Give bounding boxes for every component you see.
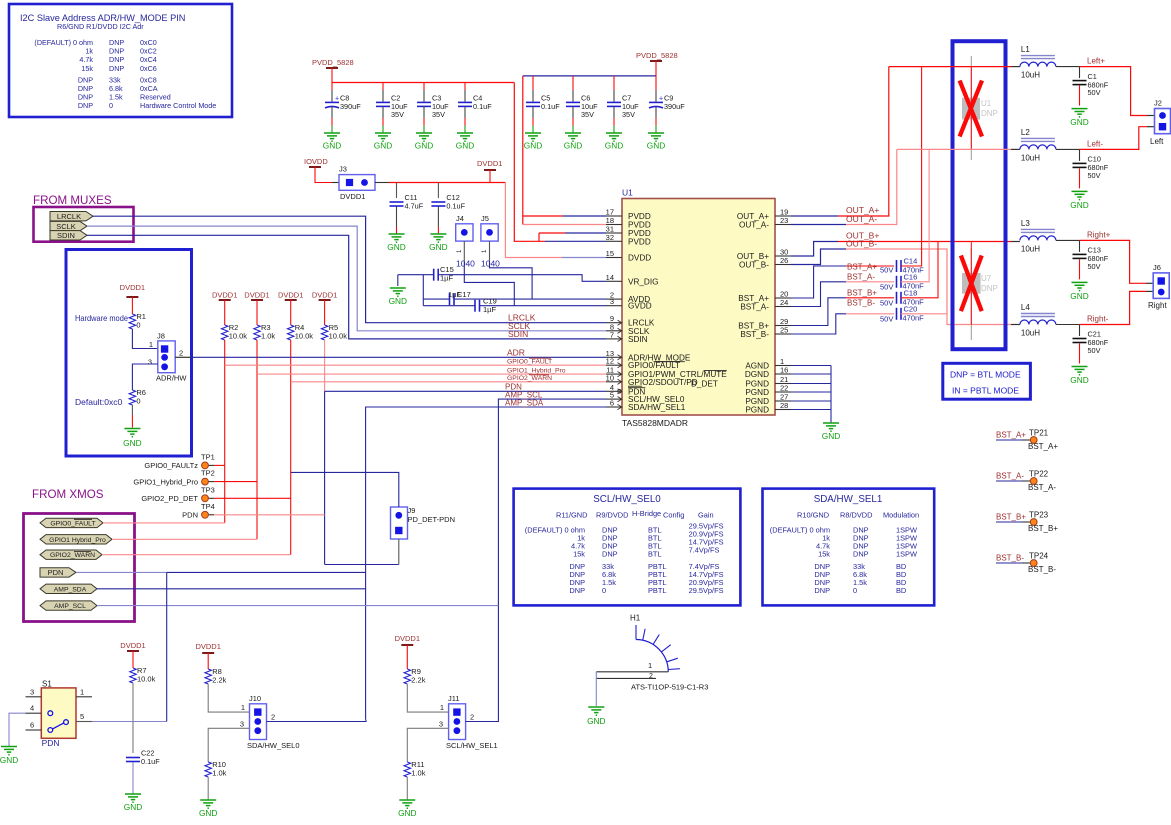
power flag DVDD1 R3 [244, 291, 269, 326]
svg-text:J4: J4 [456, 214, 464, 223]
tag AMP_SCL [40, 601, 97, 610]
pin 14 VR_DIG [606, 273, 659, 287]
svg-text:SCL/HW_SEL0: SCL/HW_SEL0 [593, 494, 661, 505]
resistor R3 [254, 323, 276, 341]
svg-text:10uH: 10uH [1021, 153, 1040, 162]
svg-text:GND: GND [429, 242, 447, 252]
svg-text:R11/GND: R11/GND [556, 511, 588, 520]
svg-text:U1: U1 [622, 188, 633, 198]
svg-text:3: 3 [148, 358, 152, 367]
svg-text:DVDD1: DVDD1 [340, 192, 365, 201]
wire DVDD1 from J3 [375, 182, 505, 184]
pin 16 DGND [745, 366, 791, 380]
pin 22 PGND [745, 384, 791, 398]
wire PVDD to pins 17 18 [523, 76, 606, 225]
svg-text:1: 1 [149, 340, 153, 349]
svg-text:GND: GND [822, 431, 840, 441]
wire ADR to pin 13 [175, 356, 191, 358]
svg-text:OUT_B-: OUT_B- [846, 239, 877, 249]
svg-text:0.1uF: 0.1uF [473, 102, 492, 111]
svg-text:ADR/HW: ADR/HW [156, 374, 187, 383]
net label GPIO2_WARN [507, 375, 552, 382]
svg-text:5: 5 [80, 712, 84, 721]
inductor L4 [1020, 303, 1056, 338]
svg-text:1.0k: 1.0k [212, 769, 226, 778]
svg-text:390uF: 390uF [340, 102, 361, 111]
resistor R2 [222, 323, 248, 341]
svg-text:IOVDD: IOVDD [304, 157, 328, 166]
svg-text:PGND: PGND [745, 406, 769, 415]
wire OUT_A+ through box [889, 66, 1011, 68]
svg-text:25: 25 [780, 326, 788, 335]
test pin J4 [456, 214, 475, 269]
power flag DVDD1 R2 [212, 291, 237, 326]
wire Left+ [1056, 66, 1080, 68]
power flag PVDD_5828 right [636, 51, 678, 76]
svg-text:DVDD1: DVDD1 [278, 291, 303, 300]
wire R1 to J8 pin 1 [132, 329, 157, 349]
svg-text:J3: J3 [339, 165, 347, 174]
svg-text:15k: 15k [818, 550, 830, 559]
test point TP3 [141, 485, 290, 503]
net label GPIO0_FAULT [507, 358, 552, 365]
svg-text:15k: 15k [81, 64, 93, 73]
test point TP21 [996, 429, 1058, 452]
svg-text:390uF: 390uF [664, 102, 685, 111]
svg-text:TP4: TP4 [201, 502, 215, 511]
ground C3 [415, 133, 433, 150]
svg-text:50V: 50V [1088, 262, 1101, 271]
test pin J5 [481, 214, 500, 269]
svg-text:GND: GND [387, 242, 405, 252]
connector J2 [1150, 99, 1171, 147]
svg-text:DNP: DNP [981, 109, 998, 118]
svg-text:SDA/HW_SEL0: SDA/HW_SEL0 [247, 741, 300, 750]
pin 23 OUT_A- [739, 216, 791, 230]
wire BST_B+ from pin [791, 298, 894, 326]
jumper J3 [339, 165, 375, 202]
svg-text:1.0k: 1.0k [411, 769, 425, 778]
svg-text:BST_A-: BST_A- [847, 273, 875, 282]
wire GPIO0 to pin 12 [225, 364, 606, 366]
svg-text:GND: GND [564, 140, 582, 150]
svg-text:TP2: TP2 [201, 469, 215, 478]
svg-text:26: 26 [780, 256, 788, 265]
svg-text:S1: S1 [42, 680, 52, 689]
ground C12 [429, 234, 447, 252]
svg-text:L2: L2 [1021, 128, 1030, 137]
capacitor C8 [325, 83, 361, 134]
svg-text:7: 7 [610, 330, 614, 339]
svg-text:10.0k: 10.0k [295, 332, 314, 341]
svg-text:DNP = BTL MODE: DNP = BTL MODE [950, 370, 1021, 380]
wire R8 to J10 pin1 [208, 684, 249, 712]
ground C8 [323, 133, 341, 150]
svg-text:BD: BD [896, 586, 906, 595]
svg-text:32: 32 [606, 233, 614, 242]
wire OUT_A- through box [897, 148, 1011, 150]
ground C5 [524, 133, 542, 150]
wire C16 to OUT net [901, 149, 929, 281]
svg-text:DVDD1: DVDD1 [395, 634, 420, 643]
svg-text:1040: 1040 [456, 259, 475, 269]
svg-text:PVDD_5828: PVDD_5828 [636, 51, 678, 60]
svg-text:14: 14 [606, 273, 614, 282]
wire BST_A+ from pin [791, 266, 894, 298]
wire Right+ to J6 [1080, 240, 1147, 283]
wire C17 to pin 2 AVDD [454, 298, 606, 300]
svg-text:1: 1 [648, 661, 652, 670]
svg-text:GND: GND [647, 140, 665, 150]
svg-text:DNP: DNP [78, 101, 93, 110]
svg-text:R6/GND R1/DVDD I2C Adr: R6/GND R1/DVDD I2C Adr [57, 22, 144, 31]
svg-text:DVDD1: DVDD1 [244, 291, 269, 300]
svg-text:DNP: DNP [814, 586, 830, 595]
svg-text:C20: C20 [904, 304, 918, 313]
svg-text:0: 0 [136, 397, 140, 406]
wire DVDD1 to pin 15 [505, 183, 562, 258]
resistor R4 [288, 323, 314, 341]
pin 8 SCLK [606, 322, 650, 336]
svg-text:+: + [659, 95, 663, 102]
inductor L2 [1020, 128, 1056, 163]
ground H1 [587, 707, 605, 726]
svg-text:TP1: TP1 [201, 452, 215, 461]
svg-text:BST_A-: BST_A- [996, 472, 1024, 481]
svg-text:0xC6: 0xC6 [140, 64, 157, 73]
power flag DVDD1 R5 [312, 291, 337, 326]
svg-text:24: 24 [780, 298, 788, 307]
svg-text:(DEFAULT) 0 ohm: (DEFAULT) 0 ohm [770, 526, 830, 535]
svg-text:C14: C14 [904, 257, 918, 266]
connector J11 [439, 694, 498, 750]
wire BST_A- from pin [791, 282, 894, 307]
svg-text:OUT_A-: OUT_A- [739, 221, 769, 230]
svg-text:J5: J5 [481, 214, 489, 223]
svg-text:GPIO0_FAULTz: GPIO0_FAULTz [144, 461, 198, 470]
pin 6 SDA/HW_SEL1 [606, 399, 686, 413]
svg-text:PVDD_5828: PVDD_5828 [312, 58, 354, 67]
svg-text:ADR: ADR [507, 347, 525, 357]
svg-text:0.1uF: 0.1uF [446, 202, 465, 211]
wire PVDD rail right [523, 75, 656, 77]
svg-text:SCL/HW_SEL1: SCL/HW_SEL1 [446, 741, 498, 750]
svg-text:2: 2 [271, 713, 275, 722]
wire J8 pin 3 to R6 [132, 364, 157, 390]
svg-text:GPIO0_FAULT: GPIO0_FAULT [50, 520, 95, 527]
pin 17 PVDD [606, 208, 651, 222]
svg-text:PDN: PDN [48, 568, 64, 577]
wire C14 to OUT net [901, 67, 922, 266]
svg-text:BST_B+: BST_B+ [1028, 524, 1058, 533]
wire S1 pin5 PDN [92, 572, 167, 721]
svg-text:7.4Vp/FS: 7.4Vp/FS [689, 546, 720, 555]
power flag DVDD1 mid [477, 159, 502, 183]
pin 12 GPIO0/FAULT [606, 357, 681, 371]
svg-text:50V: 50V [1088, 346, 1101, 355]
ground C10 [1070, 191, 1088, 210]
ground R11 [398, 800, 416, 818]
svg-text:ATS-TI1OP-519-C1-R3: ATS-TI1OP-519-C1-R3 [631, 683, 708, 692]
svg-text:J8: J8 [157, 332, 165, 341]
svg-text:Left-: Left- [1087, 139, 1103, 148]
svg-text:DNP: DNP [981, 284, 998, 293]
wire J9 pin2 to PDN net [398, 539, 400, 565]
svg-text:PDN: PDN [182, 511, 198, 520]
wire SCLK [87, 226, 606, 331]
wire GPIO0_FAULT tag [103, 522, 225, 524]
capacitor C16 [897, 272, 925, 290]
wire AMP_SDA to pin 6 [366, 407, 606, 720]
pin 11 GPIO1/PWM_CTRL/MUTE [606, 366, 727, 380]
svg-text:GND: GND [1070, 375, 1088, 385]
svg-text:10.0k: 10.0k [229, 332, 248, 341]
svg-text:GND: GND [374, 140, 392, 150]
tag GPIO2_WARN [40, 550, 102, 559]
tag GPIO1_Hybrid_Pro [40, 535, 112, 544]
svg-text:SDIN: SDIN [57, 231, 75, 240]
svg-text:2.2k: 2.2k [411, 676, 425, 685]
svg-text:3: 3 [439, 720, 443, 729]
svg-text:TP23: TP23 [1029, 511, 1049, 520]
wire GPIO0_FAULT net vertical [224, 340, 226, 523]
test point TP4 [182, 502, 324, 520]
connector J8 [148, 332, 188, 383]
svg-text:4.7uF: 4.7uF [405, 202, 424, 211]
svg-text:10uH: 10uH [1021, 329, 1040, 338]
svg-text:FROM XMOS: FROM XMOS [32, 488, 104, 501]
resistor R7 [130, 666, 156, 684]
svg-text:0.1uF: 0.1uF [141, 757, 160, 766]
wire Left- to J2 [1080, 127, 1148, 150]
svg-text:R9/DVDD: R9/DVDD [596, 511, 628, 520]
wire R9 to J11 pin1 [407, 684, 448, 712]
svg-text:50V: 50V [880, 315, 893, 324]
pin 26 OUT_B- [739, 256, 791, 270]
pin 24 BST_A- [740, 298, 791, 312]
svg-text:BST_B+: BST_B+ [847, 289, 877, 298]
wire LRCLK [93, 216, 606, 323]
ground C13 [1070, 282, 1088, 301]
svg-text:PDN: PDN [42, 738, 60, 748]
svg-text:U1: U1 [981, 99, 992, 108]
svg-text:GND: GND [605, 140, 623, 150]
svg-text:GPIO2/SDOUT/PD: GPIO2/SDOUT/PD [628, 378, 698, 387]
svg-text:BST_B-: BST_B- [740, 330, 769, 339]
svg-text:SDIN: SDIN [508, 329, 528, 339]
ground C22 [124, 794, 142, 812]
note box hardware mode [66, 250, 192, 457]
svg-text:BST_B-: BST_B- [996, 554, 1024, 563]
svg-text:GVDD: GVDD [628, 302, 652, 311]
wire OUT_A- [791, 149, 897, 224]
svg-text:23: 23 [780, 216, 788, 225]
svg-text:22: 22 [780, 384, 788, 393]
note box PBTL jumpers [953, 41, 1006, 349]
wire J9 pin1 to GPIO2 net [291, 472, 399, 507]
ground J8 box [123, 429, 141, 449]
svg-text:Modulation: Modulation [883, 511, 919, 520]
heatsink H1 [596, 614, 708, 707]
svg-text:Default:0xc0: Default:0xc0 [75, 397, 123, 407]
pin 10 GPIO2/SDOUT/PD [606, 373, 718, 388]
svg-text:1µF: 1µF [483, 305, 496, 314]
svg-text:50V: 50V [1088, 171, 1101, 180]
wire S1 pin4 to ground [9, 713, 26, 746]
svg-text:50V: 50V [880, 266, 893, 275]
wire GPIO2 tag [102, 554, 291, 556]
capacitor C6 [566, 76, 598, 133]
svg-text:IN = PBTL MODE: IN = PBTL MODE [952, 386, 1019, 396]
svg-text:SDIN: SDIN [628, 335, 648, 344]
capacitor C1 [1073, 67, 1109, 106]
svg-text:Right: Right [1148, 301, 1167, 310]
svg-text:PGND: PGND [745, 388, 769, 397]
pin 15 DVDD [606, 249, 652, 263]
svg-text:2: 2 [179, 349, 183, 358]
svg-text:DVDD1: DVDD1 [212, 291, 237, 300]
wire J4 to GVDD [464, 261, 514, 306]
svg-text:10uH: 10uH [1021, 71, 1040, 80]
svg-text:+: + [335, 95, 339, 102]
capacitor C9 [649, 76, 685, 133]
tag SDIN [50, 231, 87, 240]
wire PDN tag junction to pin net [325, 564, 399, 566]
svg-text:DVDD1: DVDD1 [477, 159, 502, 168]
svg-text:LRCLK: LRCLK [57, 212, 81, 221]
svg-text:L1: L1 [1021, 45, 1030, 54]
svg-text:C18: C18 [904, 288, 918, 297]
svg-text:Hardware Control Mode: Hardware Control Mode [140, 101, 216, 110]
svg-text:10.0k: 10.0k [329, 332, 348, 341]
svg-text:0: 0 [602, 586, 606, 595]
svg-text:35V: 35V [622, 110, 635, 119]
wire PDN to pin 4 [325, 390, 606, 392]
pin 5 SCL/HW_SEL0 [606, 391, 685, 405]
svg-text:Config: Config [663, 511, 684, 520]
svg-text:1: 1 [241, 703, 245, 712]
svg-text:GND: GND [1070, 117, 1088, 127]
tag PDN [40, 568, 76, 577]
power flag DVDD1 R1 [120, 283, 145, 314]
svg-text:(DEFAULT) 0 ohm: (DEFAULT) 0 ohm [34, 38, 93, 47]
svg-text:50V: 50V [1088, 88, 1101, 97]
resistor R5 [321, 323, 347, 341]
svg-text:AMP_SCL: AMP_SCL [54, 603, 86, 610]
svg-text:0: 0 [853, 586, 857, 595]
wire Right- to J6 [1080, 291, 1147, 324]
pin 31 PVDD [606, 225, 651, 239]
wire Right+ [1056, 239, 1080, 241]
connector J10 [240, 694, 300, 750]
svg-text:BST_A+: BST_A+ [1028, 442, 1058, 451]
svg-text:GND: GND [0, 755, 18, 765]
resistor R8 [205, 667, 227, 685]
svg-text:H1: H1 [630, 614, 641, 623]
svg-text:GND: GND [323, 140, 341, 150]
svg-text:J6: J6 [1153, 263, 1161, 272]
svg-text:Hardware mode: Hardware mode [75, 313, 128, 323]
ground C4 [456, 133, 474, 150]
capacitor C4 [458, 83, 492, 134]
svg-text:3: 3 [30, 687, 34, 696]
wire PVDD to pins 31 32 [514, 83, 606, 242]
svg-text:J11: J11 [448, 694, 460, 703]
note table SCL/HW_SEL0 [514, 489, 741, 606]
pin 1 AGND [745, 357, 791, 371]
svg-text:DVDD1: DVDD1 [120, 641, 145, 650]
pin 32 PVDD [606, 233, 651, 247]
svg-text:DVDD1: DVDD1 [195, 642, 220, 651]
svg-text:U7: U7 [981, 274, 992, 283]
svg-text:35V: 35V [432, 110, 445, 119]
wire C18 to OUT net [901, 242, 938, 298]
capacitor C19 [423, 297, 496, 315]
svg-text:GND: GND [123, 438, 141, 448]
svg-text:DVDD1: DVDD1 [312, 291, 337, 300]
svg-text:BTL: BTL [648, 550, 662, 559]
pin 2 AVDD [606, 291, 650, 305]
capacitor C5 [526, 76, 560, 133]
svg-text:J9: J9 [408, 506, 416, 515]
switch S1 [26, 680, 93, 749]
wire C19 to pin 3 GVDD [480, 305, 607, 307]
svg-text:DNP: DNP [569, 586, 585, 595]
wire R10 to ground [207, 777, 209, 800]
resistor R10 [205, 760, 227, 778]
svg-text:50V: 50V [880, 299, 893, 308]
test point TP24 [996, 552, 1056, 575]
wire OUT_A+ [791, 67, 889, 216]
note box FROM MUXES [34, 207, 134, 242]
svg-text:BST_A+: BST_A+ [847, 263, 877, 272]
test point TP22 [996, 470, 1056, 493]
svg-text:C16: C16 [904, 272, 918, 281]
svg-text:TP3: TP3 [201, 485, 215, 494]
pin 18 PVDD [606, 216, 651, 230]
wire AMP_SDA tag [97, 588, 366, 590]
svg-text:BST_B-: BST_B- [1028, 565, 1056, 574]
wire GPIO2 to pin 10 [291, 381, 606, 383]
svg-text:GND: GND [124, 802, 142, 812]
capacitor C13 [1073, 240, 1109, 279]
resistor R11 [404, 760, 426, 778]
svg-text:470nF: 470nF [903, 313, 925, 322]
capacitor C7 [607, 76, 639, 133]
capacitor C14 [897, 257, 925, 275]
pin 29 BST_B+ [738, 317, 791, 331]
svg-text:50V: 50V [880, 283, 893, 292]
wire OUT_B- [791, 249, 1020, 325]
svg-text:GPIO2_WARN: GPIO2_WARN [50, 552, 95, 559]
svg-text:PD_DET-PDN: PD_DET-PDN [408, 515, 456, 524]
svg-text:TP22: TP22 [1029, 470, 1049, 479]
pin 3 GVDD [606, 297, 652, 311]
svg-text:TP24: TP24 [1029, 552, 1049, 561]
capacitor C11 [390, 183, 424, 235]
wire Left+ to J2 [1080, 67, 1155, 116]
capacitor C2 [376, 83, 408, 134]
svg-text:35V: 35V [391, 110, 404, 119]
capacitor C17 [423, 290, 470, 305]
wire J11 pin2 to SCL net [466, 606, 499, 722]
pin 20 BST_A+ [738, 290, 791, 304]
svg-text:Left+: Left+ [1087, 57, 1105, 66]
svg-text:GND: GND [1070, 291, 1088, 301]
svg-text:GPIO0_FAULT: GPIO0_FAULT [507, 359, 552, 366]
wire GPIO1 tag [112, 538, 257, 540]
svg-text:GND: GND [389, 296, 407, 306]
